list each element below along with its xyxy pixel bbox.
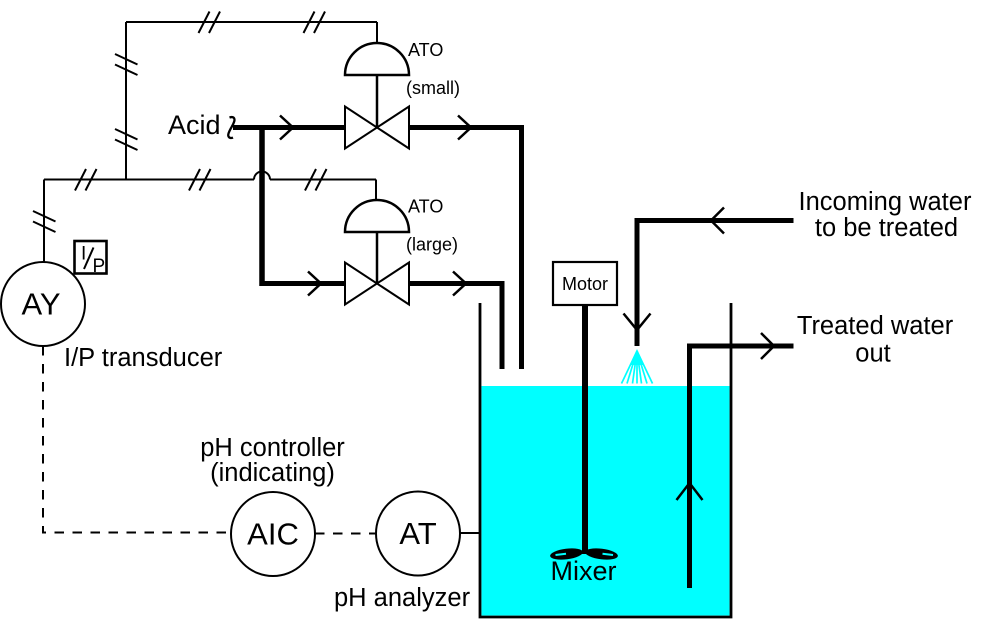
hash marks left vertical x=126 (115, 54, 138, 150)
svg-text:I: I (81, 244, 86, 265)
svg-text:pH controller: pH controller (200, 434, 345, 462)
valve actuator dome small (345, 43, 409, 128)
dashed signal AY to AIC (43, 346, 231, 533)
spray nozzle (622, 349, 653, 384)
control valve small body (345, 107, 409, 149)
svg-text:(indicating): (indicating) (210, 459, 335, 487)
arrow incoming down (624, 314, 651, 331)
hash marks left vertical x=44 (33, 211, 56, 232)
I/P box (75, 241, 107, 277)
acid source squiggle (228, 117, 234, 138)
svg-text:Acid: Acid (168, 110, 221, 140)
pipe incoming water (637, 221, 794, 347)
svg-text:Treated water: Treated water (797, 312, 954, 340)
svg-text:(small): (small) (406, 78, 460, 98)
arrow incoming left (711, 208, 724, 234)
valve actuator dome large (345, 200, 409, 284)
arrow dip tube up (677, 483, 703, 500)
instrument AT circle (376, 492, 460, 576)
arrow on acid line 2 before valve (308, 272, 321, 296)
wire AT to tank (460, 532, 481, 534)
tank vessel (480, 303, 731, 617)
arrow on acid line 1 before valve (280, 116, 293, 140)
mixer shaft (582, 305, 588, 554)
svg-text:Mixer: Mixer (551, 556, 617, 586)
wire pneumatic top line (126, 22, 377, 180)
svg-text:Incoming water: Incoming water (799, 188, 972, 216)
instrument AY circle (1, 262, 85, 346)
svg-text:ATO: ATO (408, 197, 443, 217)
svg-text:out: out (855, 340, 890, 368)
arrow on acid line 1 after valve (458, 116, 471, 140)
hash marks top line (199, 12, 326, 34)
svg-text:Motor: Motor (562, 274, 608, 294)
wire pneumatic line 2 with hop (44, 172, 376, 264)
instrument AIC circle (231, 492, 315, 576)
arrow treated right (761, 333, 774, 359)
svg-text:AT: AT (399, 516, 436, 551)
svg-text:to be treated: to be treated (815, 214, 958, 242)
svg-text:P: P (93, 256, 106, 277)
arrow on acid line 2 after valve (453, 272, 466, 296)
motor box (553, 262, 617, 305)
mixer impeller (549, 547, 618, 562)
pipe acid line 2 (260, 284, 503, 370)
svg-text:ATO: ATO (408, 40, 443, 60)
pipe treated water out (690, 346, 794, 588)
svg-text:AIC: AIC (247, 517, 299, 552)
dashed signal AIC to AT (315, 533, 376, 535)
hash marks pneumatic line 2 (75, 169, 327, 191)
control valve large body (345, 263, 409, 305)
svg-text:pH analyzer: pH analyzer (334, 584, 471, 612)
pipe acid line 1 (233, 128, 522, 370)
pipe tee vertical (259, 128, 265, 287)
svg-text:(large): (large) (406, 235, 458, 255)
svg-text:AY: AY (21, 287, 60, 322)
svg-text:I/P transducer: I/P transducer (64, 344, 223, 372)
